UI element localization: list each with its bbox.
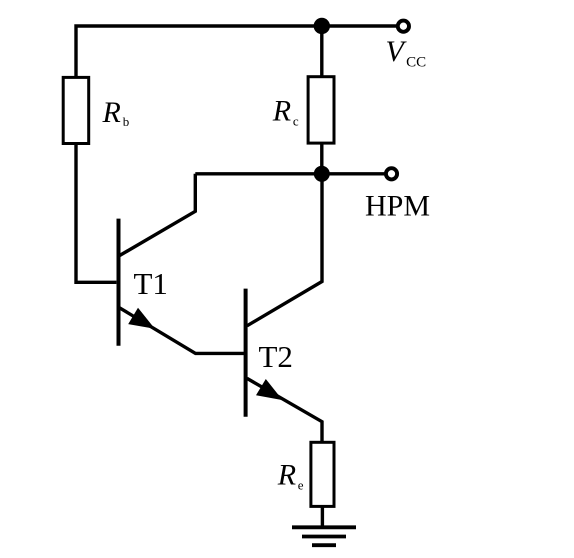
terminal Vcc (open circle) (398, 21, 409, 32)
terminal HPM (open circle) (386, 168, 397, 179)
svg-text:R: R (272, 95, 291, 128)
svg-text:R: R (277, 459, 296, 492)
transistor T1 base bar (117, 219, 121, 346)
wire: Rb bottom down to T1 base (76, 144, 116, 283)
resistor Re (311, 442, 334, 506)
wire: junction dot to HPM terminal (322, 172, 385, 175)
wire: Re bottom to ground (321, 506, 324, 527)
resistor Rb (63, 77, 88, 143)
svg-text:b: b (123, 114, 130, 129)
svg-text:HPM: HPM (365, 189, 430, 222)
resistor Rc (308, 77, 334, 143)
transistor T2 emitter arrow (256, 379, 283, 400)
ground symbol (292, 525, 356, 529)
transistor T1 emitter wire into T2 base (119, 307, 245, 353)
wire: T1 collector (vertical drop and diagonal into bar) (119, 174, 195, 256)
wire: Rc bottom to HPM junction (320, 143, 323, 174)
svg-text:e: e (298, 478, 304, 493)
transistor T1 emitter arrow (128, 308, 155, 329)
svg-text:c: c (293, 114, 299, 129)
svg-text:T1: T1 (134, 266, 168, 301)
wire: top dot down to Rc top (320, 26, 323, 77)
node: junction dot at HPM rail (314, 166, 330, 182)
svg-text:T2: T2 (259, 339, 293, 374)
svg-text:CC: CC (406, 55, 426, 71)
transistor T2 base bar (244, 289, 248, 417)
wire: HPM rail left segment to T1 collector corner (195, 172, 321, 175)
wire: top rail from Rb top-left corner to Vcc terminal (76, 26, 397, 77)
wire: T2 emitter down to Re (247, 378, 322, 442)
node: junction dot on top rail (314, 18, 330, 34)
wire: T2 collector up to HPM junction (247, 174, 322, 326)
svg-text:R: R (102, 96, 121, 129)
